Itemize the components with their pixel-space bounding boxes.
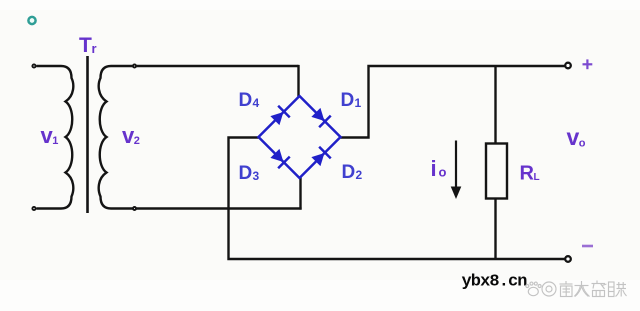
svg-text:o: o bbox=[579, 137, 586, 149]
svg-text:3: 3 bbox=[253, 169, 260, 183]
svg-text:o: o bbox=[439, 165, 447, 180]
svg-text:4: 4 bbox=[253, 96, 260, 110]
svg-text:D: D bbox=[239, 90, 253, 111]
svg-text:r: r bbox=[92, 41, 97, 56]
svg-text:1: 1 bbox=[52, 135, 58, 147]
svg-text:D: D bbox=[341, 90, 355, 111]
svg-text:i: i bbox=[431, 156, 437, 181]
svg-text:v: v bbox=[567, 124, 580, 150]
svg-text:2: 2 bbox=[356, 168, 363, 182]
svg-text:2: 2 bbox=[134, 135, 140, 147]
svg-text:T: T bbox=[79, 34, 92, 57]
svg-text:R: R bbox=[520, 163, 535, 185]
svg-text:ybx8.cn: ybx8.cn bbox=[462, 273, 528, 292]
svg-text:L: L bbox=[534, 172, 540, 183]
svg-text:D: D bbox=[239, 163, 253, 184]
svg-text:1: 1 bbox=[355, 96, 362, 110]
svg-text:D: D bbox=[342, 162, 356, 183]
